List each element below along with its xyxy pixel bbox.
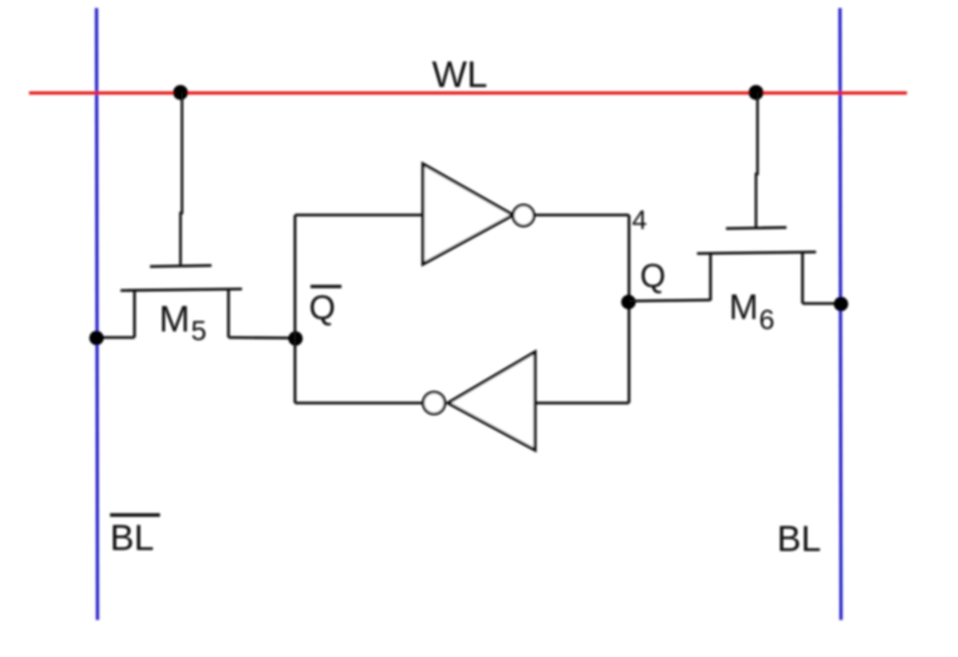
- svg-text:M: M: [159, 299, 190, 340]
- svg-text:WL: WL: [432, 54, 488, 95]
- node Q vertical wire: [628, 215, 631, 403]
- inverter U1 output bubble: [513, 205, 534, 226]
- transistor M6: [697, 228, 816, 304]
- svg-text:BL: BL: [110, 517, 154, 558]
- wire: M6 gate to WL: [756, 92, 758, 228]
- bit line BL (right blue vertical): [840, 8, 841, 620]
- junction dot: node Q to M6 source: [621, 295, 636, 310]
- wire: node Qbar to inverter U2 output: [295, 402, 423, 405]
- label BLbar: [110, 515, 160, 558]
- wire: U1 output to node Q: [534, 214, 629, 217]
- label M6: [729, 288, 775, 335]
- svg-text:Q: Q: [640, 257, 666, 294]
- inverter U2 triangle: [448, 352, 535, 450]
- inverter U1 triangle: [423, 164, 513, 264]
- word line WL (red horizontal): [29, 91, 907, 94]
- svg-text:5: 5: [191, 315, 207, 346]
- junction dot: WL to M6 gate: [749, 85, 764, 100]
- junction dot: M6 drain on BL: [834, 297, 848, 311]
- inverter U2 output bubble: [423, 392, 445, 414]
- junction dot: M5 source on BLbar: [89, 331, 103, 345]
- junction dot: WL to M5 gate: [173, 85, 188, 100]
- svg-text:6: 6: [759, 304, 775, 335]
- wire: node Qbar to inverter U1 input: [295, 214, 423, 217]
- junction dot: M5 drain at node Qbar: [288, 331, 302, 345]
- svg-text:Q: Q: [309, 289, 335, 327]
- wire: M5 gate to WL: [181, 92, 183, 266]
- svg-text:4: 4: [632, 205, 647, 235]
- wire: node Q to M6 source: [629, 300, 711, 301]
- wire: BLbar to M5 source: [96, 336, 135, 339]
- svg-text:BL: BL: [777, 518, 821, 559]
- wire: M5 drain to node Qbar: [229, 336, 296, 339]
- transistor M5: [121, 266, 243, 338]
- svg-text:M: M: [729, 288, 758, 327]
- bit line BLbar (left blue vertical): [97, 8, 98, 620]
- wire: U2 input to node Q: [535, 402, 629, 405]
- node Qbar vertical wire: [294, 215, 297, 403]
- label Qbar: [309, 287, 342, 328]
- wire: M6 drain to BL: [803, 302, 842, 305]
- label M5: [159, 299, 207, 347]
